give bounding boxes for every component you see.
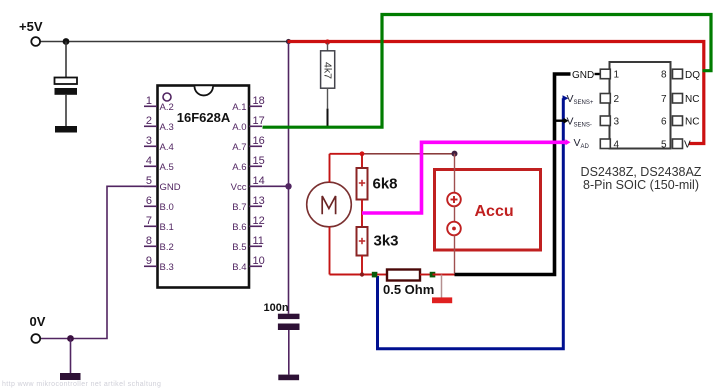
svg-text:A.3: A.3 (160, 122, 174, 133)
svg-text:NC: NC (685, 94, 699, 105)
wire black GND net (455, 74, 571, 275)
svg-text:4: 4 (614, 139, 620, 150)
resistor R3 3k3 (357, 227, 368, 275)
wire motor top (329, 154, 331, 182)
battery minus terminal (447, 222, 461, 236)
svg-text:8-Pin SOIC (150-mil): 8-Pin SOIC (150-mil) (583, 178, 699, 192)
svg-text:5: 5 (661, 139, 667, 150)
svg-text:9: 9 (146, 255, 152, 267)
svg-text:A.6: A.6 (232, 162, 246, 173)
U2 pin 3 pad (600, 116, 610, 126)
svg-text:18: 18 (253, 95, 265, 107)
wire GND net from pin5 (40, 186, 157, 338)
ground bar red (432, 297, 452, 303)
svg-text:6k8: 6k8 (373, 176, 398, 193)
svg-text:2: 2 (614, 94, 620, 105)
svg-text:B.0: B.0 (160, 202, 174, 213)
pin 14 (249, 185, 262, 187)
wire VSENS- stub black (555, 119, 565, 121)
U2 pin 7 pad (673, 94, 683, 104)
wire ground stub (441, 275, 443, 298)
U2 pin 2 pad (600, 94, 610, 104)
svg-text:B.4: B.4 (232, 262, 246, 273)
svg-text:13: 13 (253, 195, 265, 207)
pin 1 (144, 105, 157, 107)
svg-text:1: 1 (614, 70, 620, 81)
pin 13 (249, 205, 262, 207)
pin 2 (144, 125, 157, 127)
node 6k8 top (360, 151, 365, 156)
svg-text:B.7: B.7 (232, 202, 246, 213)
U2 pin 6 pad (673, 116, 683, 126)
svg-text:11: 11 (253, 235, 264, 247)
pin 7 (144, 225, 157, 227)
pin 10 (249, 265, 262, 267)
svg-text:0V: 0V (30, 314, 46, 329)
svg-text:4k7: 4k7 (321, 62, 333, 79)
svg-text:5: 5 (146, 175, 152, 187)
svg-text:A.1: A.1 (232, 102, 246, 113)
resistor R1 4k7 (321, 39, 335, 127)
terminal +5V (31, 37, 40, 46)
svg-text:A.4: A.4 (160, 142, 174, 153)
svg-text:16F628A: 16F628A (177, 110, 231, 125)
svg-text:3k3: 3k3 (374, 233, 399, 250)
pin 5 (144, 185, 157, 187)
svg-text:7: 7 (661, 94, 667, 105)
pin 18 (249, 105, 262, 107)
wire +5V horizontal (39, 41, 288, 43)
svg-text:3: 3 (614, 116, 620, 127)
svg-text:V: V (684, 139, 691, 150)
motor M1 (307, 182, 352, 227)
wire to ground (70, 339, 72, 374)
svg-text:DS2438Z, DS2438AZ: DS2438Z, DS2438AZ (581, 165, 702, 179)
IC notch (195, 86, 214, 95)
svg-text:http www mikrocontroller net a: http www mikrocontroller net artikel sch… (2, 381, 161, 388)
svg-text:DQ: DQ (685, 70, 700, 81)
svg-text:GND: GND (160, 182, 181, 193)
pin 12 (249, 225, 262, 227)
svg-text:Vcc: Vcc (231, 182, 247, 193)
wire green DQ net (263, 15, 712, 128)
svg-text:A.2: A.2 (160, 102, 174, 113)
IC pin-1 marker (163, 93, 171, 101)
svg-text:Accu: Accu (475, 203, 514, 220)
svg-text:8: 8 (146, 235, 152, 247)
IC right pin numbers (253, 95, 265, 267)
pin 8 (144, 245, 157, 247)
svg-text:2: 2 (146, 115, 152, 127)
resistor R4 0.5 Ohm (377, 270, 433, 281)
svg-text:16: 16 (253, 135, 265, 147)
svg-text:6: 6 (146, 195, 152, 207)
IC left pin numbers (146, 95, 152, 267)
battery Accu box (435, 170, 541, 251)
svg-text:15: 15 (253, 155, 265, 167)
pin 4 (144, 165, 157, 167)
wire Vcc pin14 (250, 185, 289, 187)
svg-text:A.5: A.5 (160, 162, 174, 173)
pin 17 (249, 125, 262, 127)
wire magenta VAD net (362, 142, 567, 213)
svg-text:12: 12 (253, 215, 265, 227)
IC left pins (144, 106, 157, 266)
svg-text:100n: 100n (264, 302, 289, 314)
U2 pin numbers (614, 70, 620, 151)
svg-text:3: 3 (146, 135, 152, 147)
svg-text:4: 4 (146, 155, 152, 167)
resistor R2 6k8 (357, 154, 368, 227)
U2 pin 5 pad (673, 139, 683, 149)
capacitor 100n (278, 314, 300, 375)
svg-text:B.5: B.5 (232, 242, 246, 253)
pin 15 (249, 165, 262, 167)
svg-text:1: 1 (146, 95, 152, 107)
capacitor C1 (55, 78, 78, 127)
svg-text:6: 6 (661, 116, 667, 127)
ground bar under C1 (55, 126, 77, 133)
IC right pin names (231, 102, 247, 273)
wire accu bottom lead (454, 235, 456, 273)
IC right pins (249, 106, 262, 266)
pin 3 (144, 145, 157, 147)
svg-text:8: 8 (661, 70, 667, 81)
wire accu top lead (454, 154, 456, 193)
U2 pin 1 pad (600, 69, 610, 79)
svg-text:+5V: +5V (19, 19, 43, 34)
battery plus terminal (447, 193, 461, 207)
node junction C1 (63, 38, 70, 45)
pin 9 (144, 265, 157, 267)
pin 16 (249, 145, 262, 147)
svg-text:A.7: A.7 (232, 142, 246, 153)
wire Vcc vertical (288, 42, 290, 314)
svg-text:14: 14 (253, 175, 265, 187)
IC U1 16F628A body (158, 86, 250, 288)
svg-text:B.6: B.6 (232, 222, 246, 233)
wire red top rail motor to 6k8 (330, 153, 363, 155)
svg-text:B.2: B.2 (160, 242, 174, 253)
wire motor bottom (329, 227, 331, 275)
IC left pin names (160, 102, 181, 273)
svg-text:A.0: A.0 (232, 122, 246, 133)
svg-text:17: 17 (253, 115, 265, 127)
svg-text:7: 7 (146, 215, 152, 227)
svg-text:0.5 Ohm: 0.5 Ohm (383, 282, 434, 297)
U2 pin 8 pad (673, 69, 683, 79)
ground bar under 100n (278, 375, 299, 381)
node 0V junction (67, 335, 74, 342)
node 3k3 bottom (360, 272, 364, 276)
wire navy VSENS+ net (378, 98, 564, 348)
node +5V/Vcc corner (286, 39, 291, 44)
terminal 0V (31, 334, 40, 343)
wire dark red top rail 6k8 to accu (362, 153, 455, 155)
wire to C1 (65, 42, 67, 78)
node accu top junction (452, 151, 458, 157)
wire red +5V rail (288, 42, 704, 144)
wire red bottom rail left (330, 274, 375, 276)
pin 11 (249, 245, 262, 247)
node shunt right (430, 272, 436, 278)
node Vcc pin14 junction (285, 183, 291, 189)
node shunt left (372, 272, 378, 278)
svg-text:B.3: B.3 (160, 262, 174, 273)
U2 pin 4 pad (600, 139, 610, 149)
svg-text:GND: GND (572, 70, 594, 81)
ground bar 0V (60, 373, 81, 380)
IC U2 DS2438 body (610, 62, 671, 149)
svg-text:B.1: B.1 (160, 222, 174, 233)
svg-text:NC: NC (685, 116, 699, 127)
wire accu mid lead (454, 206, 456, 221)
pin 6 (144, 205, 157, 207)
wire red bottom rail right (433, 274, 456, 276)
svg-text:10: 10 (253, 255, 265, 267)
